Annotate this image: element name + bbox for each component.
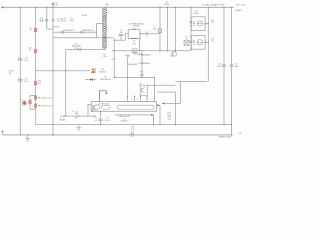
svg-text:100u: 100u xyxy=(217,66,221,68)
svg-text:10k: 10k xyxy=(38,83,41,85)
svg-text:10 n: 10 n xyxy=(91,111,95,113)
svg-text:U1 VIPer22A: U1 VIPer22A xyxy=(98,103,109,106)
svg-text:10 mH: 10 mH xyxy=(82,15,88,17)
svg-text:1.2m: 1.2m xyxy=(103,56,107,58)
svg-text:R8: R8 xyxy=(141,72,143,74)
svg-text:Q2 BAW56(A-C): Q2 BAW56(A-C) xyxy=(138,62,151,65)
svg-text:3: 3 xyxy=(137,99,138,101)
svg-text:R4: R4 xyxy=(41,17,43,19)
svg-text:1k: 1k xyxy=(29,50,31,52)
svg-text:1N4007(2) D2: 1N4007(2) D2 xyxy=(82,30,94,32)
svg-text:PC817-1: PC817-1 xyxy=(121,121,128,123)
svg-text:R5 1M: R5 1M xyxy=(53,26,59,28)
svg-text:2n2: 2n2 xyxy=(75,114,78,116)
svg-text:100n: 100n xyxy=(234,66,238,68)
svg-text:Q1 BAW56(A-C): Q1 BAW56(A-C) xyxy=(138,53,151,56)
svg-text:2N5551: 2N5551 xyxy=(99,71,106,73)
svg-text:0.1 uF: 0.1 uF xyxy=(105,120,111,122)
svg-text:5 %: 5 % xyxy=(168,119,171,121)
svg-text:10 u: 10 u xyxy=(211,40,214,42)
svg-text:D7 BZV85-C5V1: D7 BZV85-C5V1 xyxy=(39,97,52,99)
svg-text:(CM): (CM) xyxy=(69,20,74,22)
svg-text:100n: 100n xyxy=(170,55,174,57)
svg-text:22 k: 22 k xyxy=(132,43,135,45)
svg-text:x.x: x.x xyxy=(72,110,74,112)
svg-text:(1) SECONDARY LOOP: (1) SECONDARY LOOP xyxy=(203,3,225,6)
svg-text:+5 V: +5 V xyxy=(111,59,116,61)
svg-text:2: 2 xyxy=(149,99,150,101)
svg-text:4.7n: 4.7n xyxy=(131,129,135,131)
svg-text:1k: 1k xyxy=(186,38,188,40)
svg-text:75 V: 75 V xyxy=(74,48,79,50)
svg-text:1k: 1k xyxy=(30,30,32,32)
svg-text:COMMON GND: COMMON GND xyxy=(218,137,232,139)
svg-text:PC817: PC817 xyxy=(193,13,199,15)
svg-text:D8 BZV85-C5V1: D8 BZV85-C5V1 xyxy=(39,105,52,107)
svg-text:47k: 47k xyxy=(145,34,148,36)
svg-text:10 u: 10 u xyxy=(211,22,214,24)
svg-text:MUR160 1A: MUR160 1A xyxy=(100,78,111,81)
svg-text:X2 / 275V: X2 / 275V xyxy=(57,21,66,23)
svg-text:4: 4 xyxy=(131,99,132,101)
svg-text:x1: x1 xyxy=(95,120,97,122)
svg-text:3.3m: 3.3m xyxy=(152,28,157,30)
svg-text:1N4007(2) D1: 1N4007(2) D1 xyxy=(63,30,75,32)
svg-text:UF4007: UF4007 xyxy=(133,26,140,28)
svg-text:EE16: EE16 xyxy=(165,4,170,6)
svg-text:RESET: RESET xyxy=(235,10,242,12)
svg-text:+5 V +5 V: +5 V +5 V xyxy=(236,5,246,7)
svg-text:F2: F2 xyxy=(20,99,22,101)
svg-text:-5 V: -5 V xyxy=(238,133,242,135)
